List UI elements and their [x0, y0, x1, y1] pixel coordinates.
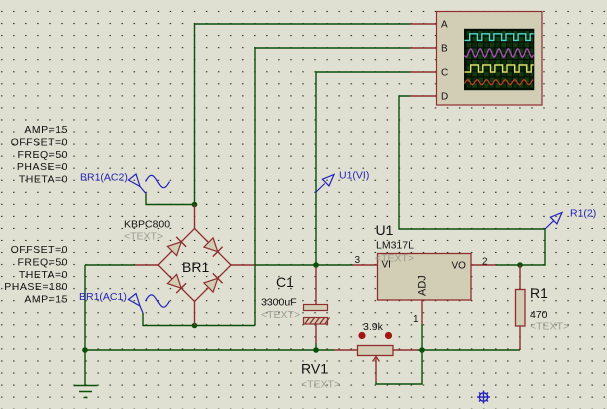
svg-text:3: 3 — [354, 255, 360, 266]
svg-text:AMP=15: AMP=15 — [24, 124, 68, 136]
svg-text:BR1(AC1): BR1(AC1) — [79, 291, 127, 303]
svg-text:C: C — [441, 68, 448, 79]
svg-text:BR1(AC2): BR1(AC2) — [80, 172, 128, 184]
svg-text:R1: R1 — [530, 285, 548, 301]
svg-text:THETA=0: THETA=0 — [19, 174, 68, 186]
svg-text:FREQ=50: FREQ=50 — [18, 256, 68, 268]
svg-text:THETA=0: THETA=0 — [19, 269, 68, 281]
svg-text:ADJ: ADJ — [417, 275, 429, 296]
svg-text:2: 2 — [482, 257, 488, 268]
svg-text:<TEXT>: <TEXT> — [301, 379, 340, 391]
svg-text:PHASE=0: PHASE=0 — [17, 161, 68, 173]
svg-text:AMP=15: AMP=15 — [24, 294, 68, 306]
svg-text:KBPC800: KBPC800 — [124, 219, 170, 231]
svg-text:U1(VI): U1(VI) — [339, 170, 369, 182]
svg-text:C1: C1 — [276, 274, 294, 290]
svg-text:470: 470 — [530, 309, 548, 321]
svg-text:<TEXT>: <TEXT> — [261, 309, 300, 321]
svg-text:RV1: RV1 — [301, 361, 328, 377]
svg-text:LM317L: LM317L — [376, 240, 414, 252]
svg-text:R1(2): R1(2) — [570, 208, 596, 220]
svg-text:B: B — [441, 44, 448, 55]
svg-text:OFFSET=0: OFFSET=0 — [11, 136, 68, 148]
svg-text:VI: VI — [382, 260, 391, 271]
svg-text:3300uF: 3300uF — [261, 297, 297, 309]
svg-text:U1: U1 — [376, 222, 394, 238]
svg-text:VO: VO — [452, 261, 467, 272]
svg-text:1: 1 — [413, 314, 419, 325]
svg-text:<TEXT>: <TEXT> — [530, 321, 569, 333]
svg-text:<TEXT>: <TEXT> — [124, 231, 163, 243]
svg-text:OFFSET=0: OFFSET=0 — [11, 244, 68, 256]
svg-text:A: A — [441, 20, 448, 31]
svg-text:3.9k: 3.9k — [363, 321, 384, 333]
svg-text:FREQ=50: FREQ=50 — [18, 149, 68, 161]
svg-text:BR1: BR1 — [182, 259, 209, 275]
svg-text:PHASE=180: PHASE=180 — [4, 281, 68, 293]
svg-text:D: D — [441, 92, 448, 103]
